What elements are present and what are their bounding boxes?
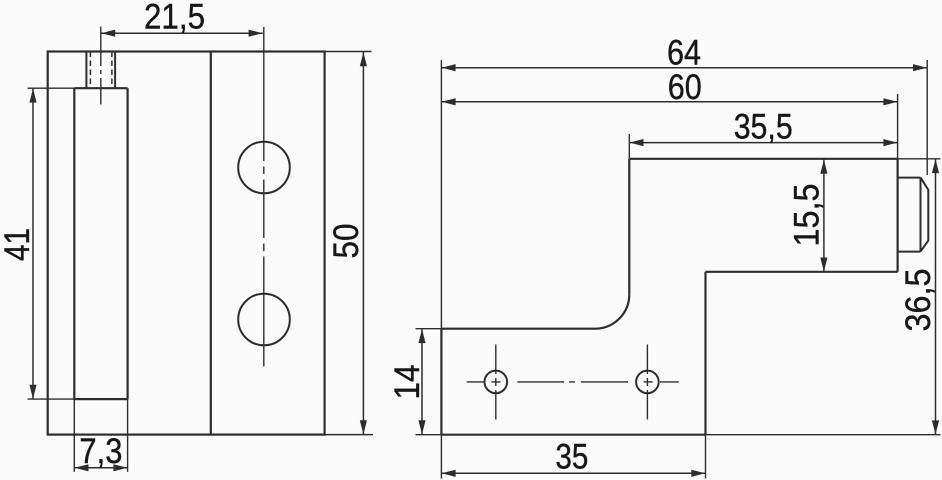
dimension 50 bottom arrow [360,420,367,434]
dimension 35,5 right arrow [883,139,897,146]
svg-text:14: 14 [388,365,427,400]
dimension 60 left arrow [442,98,456,105]
dimension 14 bottom arrow [418,420,425,434]
left view: upper hole [238,142,290,194]
dimension 35 line [441,472,705,474]
left view: pin hidden line left [89,52,91,89]
dimension 64 left arrow [442,64,456,71]
left view: knuckle bar top edge [74,87,127,89]
right view: pin top edge [898,177,921,179]
svg-text:60: 60 [668,68,702,107]
left view: hinge plate outline [48,52,325,435]
right view: bottom edge extension left [416,434,442,436]
right view: pin chamfered end [921,178,929,252]
dimension 35 left arrow [442,470,456,477]
right view: left extension line up [440,60,442,329]
left view: knuckle bar left extension down [73,399,75,472]
dimension 60 right arrow [883,98,897,105]
svg-text:41: 41 [0,228,37,261]
left view: bar bottom extension to left [28,398,75,400]
left view: holes center line [263,27,265,367]
dimension 60 line [441,101,897,103]
right view: right hole crosshair vertical [646,345,648,420]
right view: holes horizontal center line [467,381,679,383]
svg-text:21,5: 21,5 [144,0,205,37]
left view: knuckle bar right extension down [127,399,129,472]
right view: bottom edge [441,434,705,436]
right view: upper step line [706,271,898,273]
dimension 7,3 right arrow [113,464,127,471]
right view: top edge [629,158,897,160]
svg-text:35: 35 [555,438,588,477]
dimension 35,5 left extension line [628,134,630,159]
dimension 41 top arrow [29,89,36,103]
right view: left extension line down [440,435,442,479]
svg-text:36,5: 36,5 [899,269,938,332]
left view: knuckle bar right edge [126,88,128,399]
dimension 15,5 bottom arrow [820,258,827,272]
dimension 21,5 line [101,32,263,34]
dimension 36,5 line [935,159,937,435]
dimension 50 line [362,52,364,435]
left view: pin left outer edge [85,52,87,89]
left view: inner fold edge [210,52,212,435]
left view: pin hidden line right [111,52,113,89]
dimension 15,5 line [823,160,825,272]
left view: plate top edge extension to right [325,51,372,53]
svg-text:35,5: 35,5 [734,108,793,147]
dimension 36,5 bottom arrow [932,420,939,434]
left view: bar top extension to left [28,87,75,89]
dimension 35,5 left arrow [630,139,644,146]
dimension 64 right arrow [913,64,927,71]
dimension 50 top arrow [360,52,367,66]
right view: pin chamfer start line [920,178,922,252]
left view: plate bottom edge extension to right [325,434,373,436]
svg-text:15,5: 15,5 [788,184,827,247]
right view: flange hole right [636,371,659,394]
dimension 21,5 right arrow [249,30,263,37]
right view: fillet arc at inner corner [595,294,629,328]
dimension 64 right extension line [926,60,928,175]
dimension 14 top arrow [418,329,425,343]
right view: upper-left vertical edge [628,159,630,295]
dimension 7,3 left arrow [75,464,89,471]
svg-text:64: 64 [667,34,701,73]
right view: top edge extension right [898,158,941,160]
right view: flange hole left [485,371,508,394]
svg-text:7,3: 7,3 [79,432,122,471]
dimension 35 right arrow [691,470,705,477]
dimension 41 line [32,88,34,399]
dimension 36,5 top arrow [932,159,939,173]
right view: right edge extension up [897,94,899,159]
dimension 7,3 line [74,467,127,469]
left view: pin center line [100,27,102,105]
right view: step top extension left [416,328,442,330]
dimension 41 bottom arrow [29,385,36,399]
right view: pin bottom edge [898,251,921,253]
right view: bottom edge extension right [706,434,941,436]
left view: knuckle bar bottom edge [74,398,127,400]
right view: right edge [896,159,898,272]
right view: left edge [440,329,442,435]
right view: left hole crosshair vertical [495,345,497,420]
dimension 64 line [441,67,927,69]
right view: step top edge [441,328,595,330]
right view: step right extension down [705,435,707,479]
dimension 14 line [421,329,423,435]
dimension 15,5 top arrow [820,160,827,174]
left view: pin right outer edge [114,52,116,89]
right view: step right vertical edge [704,272,706,435]
dimension 21,5 left arrow [101,30,115,37]
left view: lower hole [238,294,290,346]
dimension 35,5 line [629,142,897,144]
left view: knuckle bar left edge [73,88,75,399]
svg-text:50: 50 [327,224,366,259]
